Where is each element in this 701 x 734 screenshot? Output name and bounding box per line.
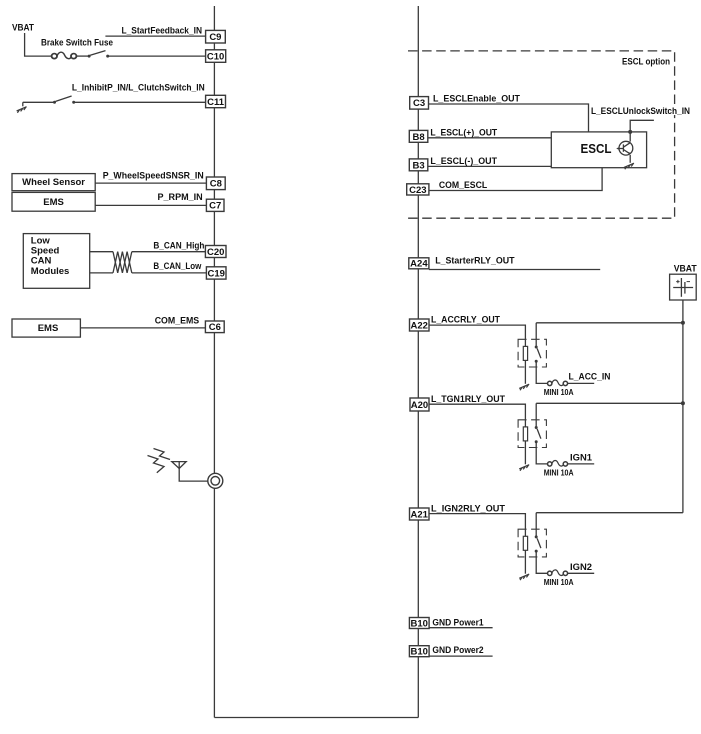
svg-text:COM_EMS: COM_EMS: [155, 315, 200, 326]
ground (chassis) at clutch switch: [17, 102, 27, 112]
relay IGN2: [518, 513, 594, 580]
block EMS (upper): [12, 192, 95, 211]
antenna: [172, 462, 208, 482]
wire B8 to ESCL: [428, 137, 552, 139]
svg-text:C9: C9: [209, 32, 221, 43]
pin box C10: [206, 50, 226, 63]
pin box C6: [205, 321, 224, 333]
svg-text:Brake Switch Fuse: Brake Switch Fuse: [41, 38, 113, 49]
svg-text:A22: A22: [410, 320, 427, 331]
wire relay IGN2 switch to VBAT line: [536, 512, 683, 514]
pin box B10 (GND Power2): [409, 646, 429, 658]
block Wheel Sensor: [12, 174, 95, 191]
svg-text:L_ESCLEnable_OUT: L_ESCLEnable_OUT: [433, 94, 520, 105]
wire stub to C9: [105, 35, 205, 37]
svg-text:GND Power2: GND Power2: [432, 645, 483, 656]
svg-text:C6: C6: [209, 322, 221, 333]
right bus (module pin column): [417, 6, 419, 718]
svg-text:C7: C7: [209, 201, 221, 212]
ground under ESCL key symbol: [624, 163, 634, 169]
svg-text:L_ACC_IN: L_ACC_IN: [569, 371, 611, 382]
radio wave marks: [148, 449, 171, 473]
svg-text:C8: C8: [210, 179, 222, 190]
svg-text:L_StartFeedback_IN: L_StartFeedback_IN: [122, 26, 203, 37]
junction dot on ESCL box top: [628, 130, 632, 134]
svg-text:L_InhibitP_IN/L_ClutchSwitch_I: L_InhibitP_IN/L_ClutchSwitch_IN: [72, 83, 205, 94]
svg-text:C10: C10: [207, 51, 224, 62]
svg-text:L_ESCLUnlockSwitch_IN: L_ESCLUnlockSwitch_IN: [591, 106, 690, 117]
dashed border ESCL option: [408, 51, 675, 218]
junction VBAT/ACC: [681, 321, 685, 325]
wire twisted pair to C20: [132, 251, 206, 253]
ESCL unit box: [551, 132, 646, 168]
svg-text:A24: A24: [410, 259, 428, 270]
svg-text:EMS: EMS: [38, 323, 59, 334]
left bus (module pin column): [213, 6, 215, 718]
white gap for unlock label over dashed border: [662, 105, 692, 115]
pin box B3: [409, 159, 428, 171]
wire ground to clutch switch: [23, 101, 54, 103]
svg-text:L_StarterRLY_OUT: L_StarterRLY_OUT: [435, 256, 515, 267]
svg-text:C3: C3: [413, 98, 425, 109]
pin box C19: [206, 267, 226, 280]
pin box C11: [206, 95, 226, 108]
svg-text:IGN1: IGN1: [570, 452, 593, 463]
pin box C7: [206, 199, 224, 212]
svg-text:C19: C19: [207, 268, 224, 279]
pin box C9: [206, 30, 226, 43]
pin box A21: [410, 508, 430, 520]
svg-text:MINI 10A: MINI 10A: [544, 467, 574, 477]
wire C23 to ESCL bottom: [429, 168, 602, 191]
svg-text:L_ESCL(-)_OUT: L_ESCL(-)_OUT: [430, 156, 497, 167]
svg-text:Modules: Modules: [31, 266, 70, 277]
wire GND Power2: [429, 655, 493, 657]
svg-text:L_ESCL(+)_OUT: L_ESCL(+)_OUT: [430, 127, 497, 138]
key transistor symbol inside ESCL: [616, 132, 633, 163]
pin box B10 (GND Power1): [409, 618, 429, 630]
svg-text:B_CAN_Low: B_CAN_Low: [153, 261, 201, 272]
svg-text:COM_ESCL: COM_ESCL: [439, 180, 487, 191]
wire CAN low from box: [90, 272, 113, 274]
wire EMS to C7: [95, 204, 206, 206]
svg-text:B_CAN_High: B_CAN_High: [153, 240, 204, 251]
svg-text:P_RPM_IN: P_RPM_IN: [158, 192, 203, 203]
svg-text:ESCL option: ESCL option: [622, 57, 670, 68]
brake switch arm: [90, 51, 105, 56]
svg-text:C23: C23: [409, 185, 426, 196]
pin box A20: [410, 398, 429, 411]
svg-text:C20: C20: [207, 247, 224, 258]
svg-text:IGN2: IGN2: [570, 562, 592, 573]
wire A21 to relay coil: [429, 514, 525, 537]
pin box C20: [205, 246, 226, 258]
wire C3 to ESCL top: [429, 104, 589, 132]
wire B3 to ESCL: [428, 165, 552, 167]
pin box A22: [410, 319, 430, 331]
pin box C3: [410, 97, 429, 110]
wire A20 to relay coil: [429, 404, 525, 427]
svg-text:A20: A20: [411, 400, 428, 411]
block EMS (lower): [12, 319, 80, 337]
wire brake switch to C10: [109, 55, 206, 57]
svg-text:B8: B8: [413, 132, 425, 143]
svg-text:GND Power1: GND Power1: [432, 617, 484, 628]
relay IGN1: [518, 403, 594, 470]
wire A22 to relay coil: [429, 325, 525, 346]
fuse Brake Switch Fuse: [52, 52, 77, 58]
svg-text:C11: C11: [207, 97, 225, 108]
wire A24 L_StarterRLY_OUT: [429, 269, 600, 271]
svg-text:EMS: EMS: [43, 197, 64, 208]
junction VBAT/IGN1: [681, 401, 685, 405]
pin box A24: [409, 258, 429, 270]
wire Wheel Sensor to C8: [95, 182, 206, 184]
pin box B8: [409, 130, 428, 142]
wire relay IGN1 switch to VBAT line: [536, 402, 683, 404]
wire relay ACC switch to VBAT line: [536, 322, 683, 324]
svg-text:P_WheelSpeedSNSR_IN: P_WheelSpeedSNSR_IN: [103, 170, 204, 181]
svg-text:VBAT: VBAT: [674, 263, 697, 274]
clutch switch contact right: [72, 101, 75, 104]
wire CAN high from box: [90, 251, 113, 253]
pin box C8: [206, 177, 225, 190]
wire VBAT battery down: [682, 300, 684, 513]
twisted pair symbol: [113, 252, 132, 273]
brake switch contact left: [88, 55, 91, 58]
svg-text:ESCL: ESCL: [581, 142, 612, 156]
svg-text:A21: A21: [410, 509, 428, 520]
bottom bus connecting wire: [214, 717, 418, 719]
wire fuse to brake switch: [76, 55, 88, 57]
svg-text:Wheel Sensor: Wheel Sensor: [22, 177, 85, 188]
svg-text:L_TGN1RLY_OUT: L_TGN1RLY_OUT: [431, 394, 505, 405]
pin box C23: [407, 184, 429, 196]
svg-text:MINI 10A: MINI 10A: [544, 387, 574, 397]
svg-text:L_ACCRLY_OUT: L_ACCRLY_OUT: [431, 315, 500, 326]
svg-text:B3: B3: [413, 160, 425, 171]
battery VBAT: [670, 274, 697, 300]
svg-text:B10: B10: [410, 647, 427, 658]
svg-text:MINI 10A: MINI 10A: [544, 577, 574, 587]
block Low Speed CAN Modules: [23, 234, 89, 289]
clutch switch contact left: [53, 101, 56, 104]
wire L_ESCLUnlockSwitch_IN: [630, 120, 654, 132]
wire twisted pair to C19: [132, 272, 207, 274]
wire EMS to C6: [80, 327, 205, 329]
svg-text:L_IGN2RLY_OUT: L_IGN2RLY_OUT: [431, 504, 505, 515]
clutch switch arm: [56, 96, 72, 101]
relay ACC: [518, 323, 594, 390]
antenna connector (double circle) on bus: [208, 473, 223, 488]
svg-text:B10: B10: [410, 618, 427, 629]
wire from VBAT down to fuse: [25, 33, 52, 56]
wire clutch switch to C11: [75, 101, 206, 103]
brake switch contact right: [106, 55, 109, 58]
svg-text:VBAT: VBAT: [12, 22, 34, 33]
wire GND Power1: [429, 627, 493, 629]
